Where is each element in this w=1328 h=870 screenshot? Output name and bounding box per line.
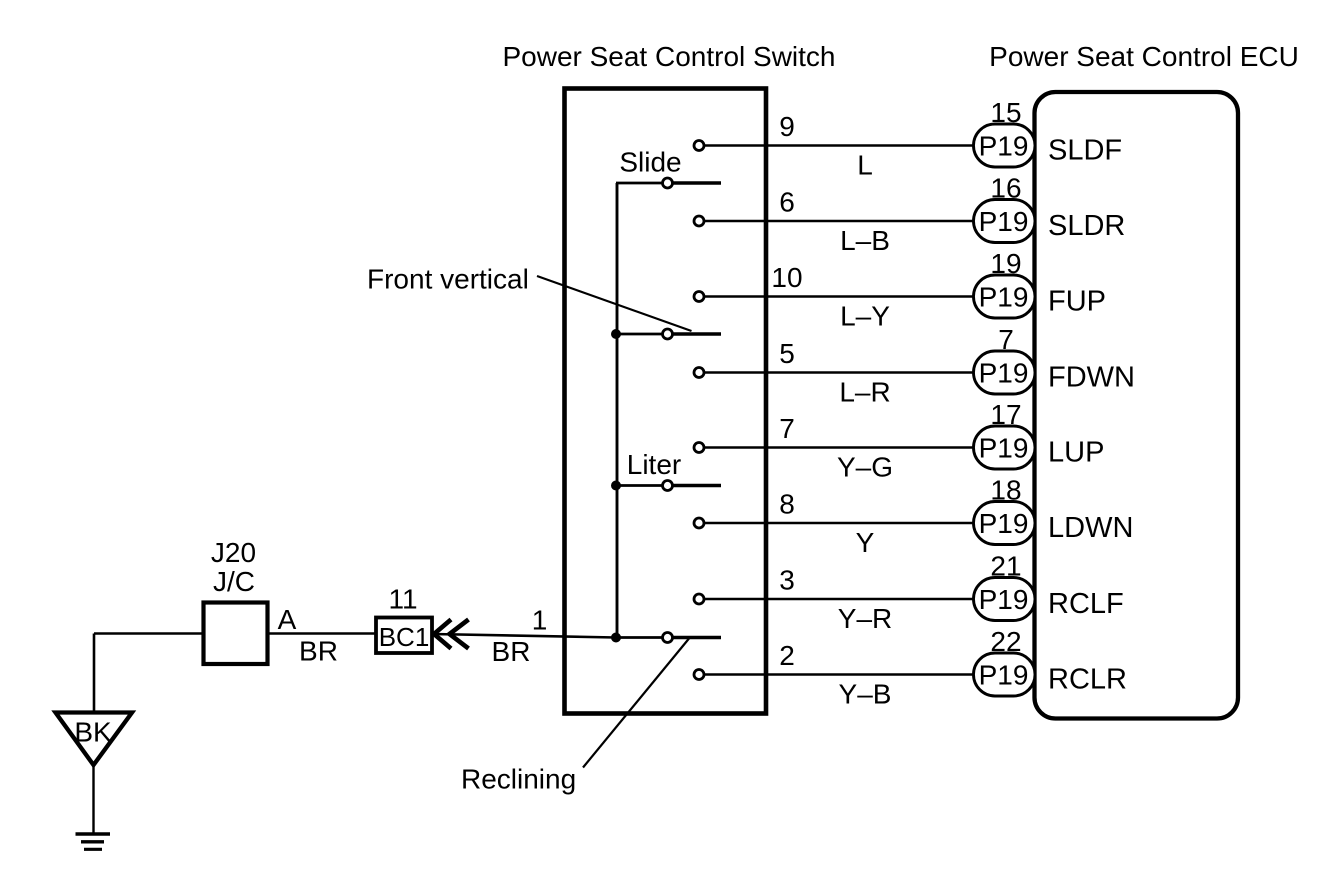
svg-text:SLDR: SLDR (1048, 210, 1125, 242)
svg-text:P19: P19 (979, 282, 1029, 313)
svg-text:P19: P19 (979, 660, 1029, 691)
svg-text:L: L (857, 150, 873, 181)
svg-text:Y–G: Y–G (837, 452, 893, 483)
svg-text:P19: P19 (979, 584, 1029, 615)
svg-text:Front vertical: Front vertical (367, 264, 529, 295)
svg-text:BK: BK (74, 717, 112, 748)
svg-text:Power Seat Control ECU: Power Seat Control ECU (989, 41, 1299, 72)
svg-text:7: 7 (998, 324, 1014, 355)
svg-text:L–R: L–R (839, 377, 890, 408)
svg-text:Y–R: Y–R (838, 603, 892, 634)
svg-text:9: 9 (779, 111, 795, 142)
svg-text:8: 8 (779, 489, 795, 520)
svg-text:17: 17 (990, 399, 1021, 430)
svg-text:5: 5 (779, 338, 795, 369)
svg-text:BR: BR (299, 636, 338, 667)
svg-text:18: 18 (990, 475, 1021, 506)
svg-text:2: 2 (779, 640, 795, 671)
svg-text:19: 19 (990, 248, 1021, 279)
svg-text:15: 15 (990, 97, 1021, 128)
svg-text:16: 16 (990, 173, 1021, 204)
svg-text:L–Y: L–Y (840, 301, 890, 332)
svg-text:21: 21 (990, 551, 1021, 582)
svg-text:P19: P19 (979, 206, 1029, 237)
svg-text:A: A (278, 604, 297, 635)
svg-text:J20: J20 (211, 537, 256, 568)
svg-text:RCLR: RCLR (1048, 664, 1127, 696)
svg-text:P19: P19 (979, 433, 1029, 464)
svg-text:L–B: L–B (840, 225, 890, 256)
svg-text:Y–B: Y–B (839, 679, 892, 710)
svg-text:22: 22 (990, 626, 1021, 657)
svg-text:Power Seat Control Switch: Power Seat Control Switch (502, 41, 835, 72)
svg-text:P19: P19 (979, 131, 1029, 162)
svg-text:1: 1 (532, 605, 548, 636)
svg-text:3: 3 (779, 565, 795, 596)
svg-text:7: 7 (779, 413, 795, 444)
svg-text:LUP: LUP (1048, 437, 1104, 469)
svg-text:P19: P19 (979, 508, 1029, 539)
svg-text:BC1: BC1 (379, 622, 430, 652)
svg-text:SLDF: SLDF (1048, 135, 1122, 167)
svg-text:J/C: J/C (213, 566, 255, 597)
svg-text:RCLF: RCLF (1048, 588, 1124, 620)
svg-text:LDWN: LDWN (1048, 512, 1133, 544)
svg-text:Reclining: Reclining (461, 764, 576, 795)
svg-text:FDWN: FDWN (1048, 362, 1135, 394)
svg-text:Liter: Liter (627, 449, 681, 480)
svg-text:Slide: Slide (619, 147, 681, 178)
svg-text:6: 6 (779, 187, 795, 218)
svg-text:BR: BR (492, 636, 531, 667)
svg-text:FUP: FUP (1048, 286, 1106, 318)
svg-text:11: 11 (388, 584, 417, 615)
svg-text:10: 10 (771, 262, 802, 293)
svg-text:P19: P19 (979, 358, 1029, 389)
svg-text:Y: Y (856, 527, 875, 558)
